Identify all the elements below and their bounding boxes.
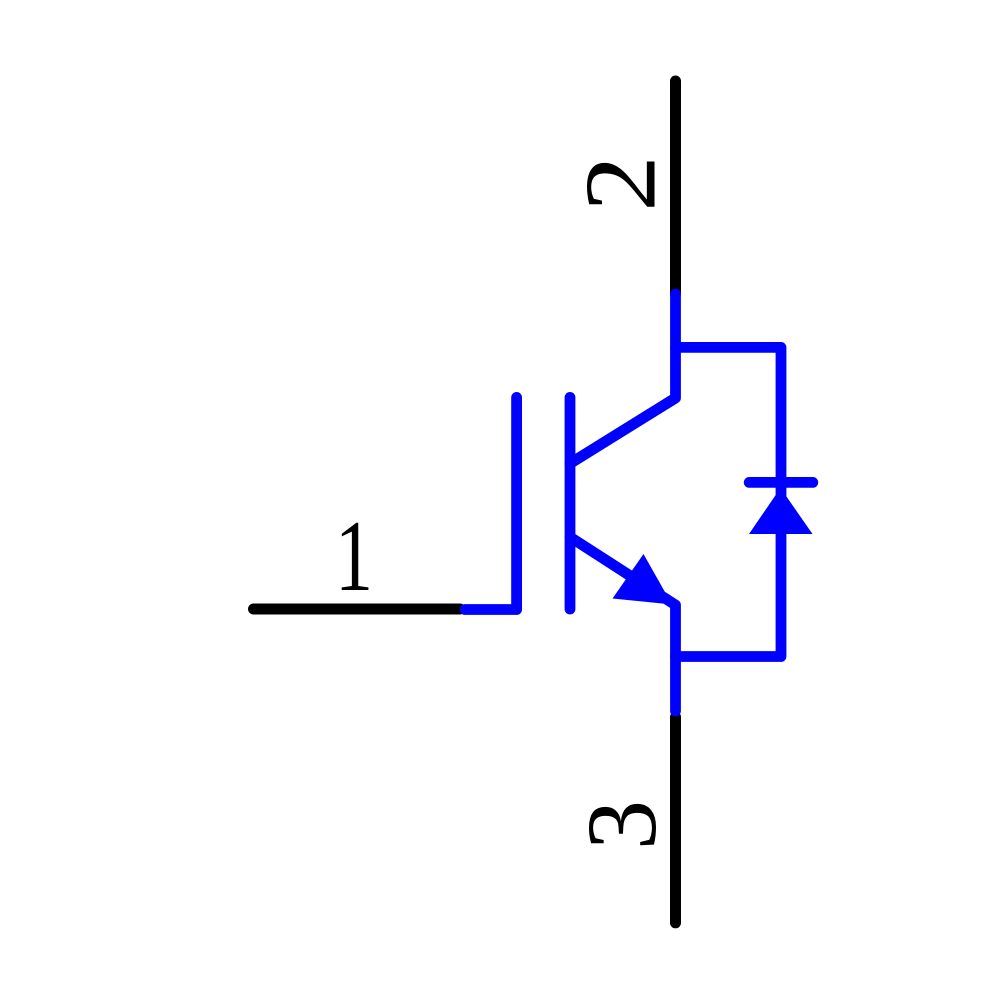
svg-text:2: 2: [565, 155, 678, 211]
svg-text:3: 3: [566, 800, 677, 850]
svg-text:1: 1: [335, 500, 373, 612]
